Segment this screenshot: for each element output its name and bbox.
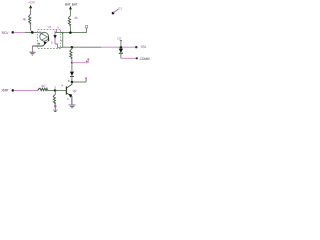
pin speck on C-E vertical [61, 40, 63, 41]
stub cap port symbol [86, 26, 88, 28]
branch tick label [86, 61, 87, 62]
R4 bottom magenta blob [54, 105, 57, 108]
phototransistor arrow blob [53, 35, 56, 39]
ground (LED) [31, 46, 33, 52]
junction dot collector rail [62, 32, 64, 34]
junction dot collector [71, 81, 74, 84]
wire R5 to base [47, 89, 66, 91]
transistor Q2 emitter lead [67, 93, 72, 105]
ground (emitter) [68, 104, 75, 106]
resistor R3 [71, 47, 73, 49]
pin specks misc [60, 90, 61, 91]
phototransistor bar [54, 31, 56, 44]
diode D1 lead from branch [71, 63, 73, 72]
svg-text:COMM: COMM [140, 57, 150, 61]
wire collector rail y=32.6 [55, 32, 87, 34]
svg-text:BAT_BAT: BAT_BAT [65, 2, 77, 6]
collector pin stub (magenta) [56, 30, 58, 33]
LED cathode bar [48, 37, 50, 41]
junction dot diode column [120, 46, 123, 49]
junction dot R3 bottom [71, 62, 73, 64]
junction dot RCV/R1/ground column [31, 31, 34, 34]
wire XMIT magenta [14, 89, 38, 91]
LED anode lead (diagonal) [41, 33, 44, 35]
base pin 1 mark [62, 85, 63, 87]
wire magenta branch y=62.7 [72, 59, 88, 62]
svg-text:E1: E1 [118, 7, 122, 11]
node dot LED anode pin [39, 31, 41, 33]
ground (divider) [53, 109, 58, 111]
resistor R5 (horizontal) [38, 88, 48, 90]
annotation arrow (top right) [112, 12, 115, 15]
R1 elbow to junction [31, 30, 33, 32]
svg-text:U1: U1 [48, 25, 52, 29]
power +12V arrow [29, 5, 32, 8]
divider pin stub (magenta) [54, 86, 56, 90]
svg-text:4k: 4k [74, 16, 78, 20]
transistor Q2 base bar [65, 86, 67, 94]
wire RCV green segment [25, 31, 41, 33]
wire collector y=82 [72, 81, 86, 83]
resistor R4 (divider) [54, 90, 56, 94]
resistor R2 [68, 16, 70, 26]
LED cathode arrow (filled) [44, 42, 47, 46]
junction dot R3 [71, 46, 74, 49]
end dot SRL [135, 46, 137, 48]
junction dot base divider [54, 89, 57, 92]
node dot XMIT [12, 89, 15, 92]
wire D2 to COMM [120, 53, 122, 58]
diode D2 top bar [120, 39, 122, 41]
D1 pin specks [71, 71, 72, 72]
svg-text:SRL: SRL [141, 45, 147, 49]
svg-text:+12V: +12V [28, 1, 36, 5]
phototransistor C-E vertical [62, 33, 64, 48]
LED body (round outline) [40, 32, 49, 41]
opto U1 dashed box [38, 30, 61, 49]
LED cathode diagonal lead [45, 41, 48, 43]
wire RCV magenta segment [14, 31, 25, 33]
R1 pin specks [30, 14, 31, 15]
end dot COMM [136, 57, 138, 59]
resistor R1 [29, 14, 31, 24]
stub up at x=86.6 [86, 28, 88, 33]
diode D1 body (filled) [70, 72, 74, 76]
transistor Q2 collector lead [67, 82, 72, 88]
diode D2 body (filled) [119, 49, 123, 53]
LED cathode wire to ground corner [32, 45, 44, 46]
phototransistor emitter elbow [55, 44, 63, 48]
transistor Q2 emitter arrow [69, 94, 73, 98]
base pin stub (magenta) [60, 30, 62, 33]
R3 pin specks [71, 49, 72, 50]
svg-text:4k7: 4k7 [41, 84, 46, 88]
D2 pin specks [120, 40, 121, 41]
svg-text:RCV: RCV [2, 31, 10, 35]
wire main middle y=47.2 (magenta segment) [101, 46, 136, 48]
svg-text:4k: 4k [23, 17, 27, 21]
collector stub up [85, 79, 87, 82]
LED inner triangle edges [41, 34, 47, 41]
power BAT arrow [69, 6, 72, 9]
collector pin speck [68, 80, 69, 81]
wire main middle y=47.2 (green segment) [62, 46, 101, 48]
R5 pin specks [37, 90, 38, 91]
branch cap dot [87, 58, 89, 60]
LED pin label mark [38, 43, 40, 45]
junction dot R2 on collector rail [69, 31, 72, 34]
node dot at RCV [12, 31, 15, 34]
R2 pin specks [70, 15, 71, 16]
svg-text:Q2: Q2 [73, 89, 77, 93]
